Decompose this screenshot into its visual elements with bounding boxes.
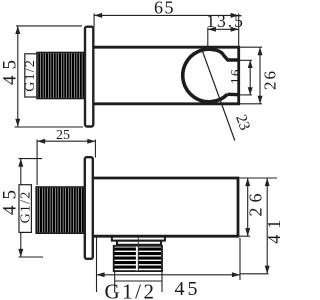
svg-text:13.5: 13.5 — [206, 11, 245, 31]
svg-text:26: 26 — [246, 189, 266, 217]
dimension 45 (top view, left) — [15, 26, 84, 127]
G1/2 label box (bottom view) — [19, 185, 31, 233]
bracket body block (bottom view) — [94, 178, 239, 236]
dimension 65 (top) — [94, 14, 239, 47]
threaded inlet (top view) — [37, 53, 85, 99]
dimension G1/2 (outlet pipe) — [115, 272, 162, 293]
upper lip of cradle — [216, 50, 239, 60]
wall flange (top view) — [85, 27, 93, 127]
svg-text:45: 45 — [0, 54, 21, 85]
dimension 26 (top view, right) — [240, 47, 262, 104]
holder cradle circle (top view) — [183, 49, 228, 102]
svg-text:26: 26 — [261, 69, 280, 90]
threaded outlet pipe (bottom view) — [114, 237, 162, 271]
outlet collar ring 1 — [112, 237, 165, 241]
svg-text:G1/2: G1/2 — [105, 280, 157, 300]
23 degree reference line — [201, 47, 235, 141]
svg-text:G1/2: G1/2 — [18, 191, 33, 224]
svg-text:45: 45 — [175, 278, 201, 300]
dimension 41 (bottom view, far right) — [240, 178, 269, 274]
svg-text:41: 41 — [264, 214, 283, 244]
svg-text:G1/2: G1/2 — [23, 59, 38, 92]
dimension 16 (slot width) — [240, 60, 252, 95]
G1/2 label box (top view) — [25, 54, 37, 97]
outlet collar ring 2 — [117, 241, 161, 245]
svg-text:65: 65 — [154, 0, 175, 18]
wall flange (bottom view) — [85, 157, 93, 259]
dimension 25 (bottom view, top) — [37, 140, 95, 186]
dimension 26 (bottom view, right) — [240, 178, 278, 236]
svg-text:16: 16 — [228, 68, 243, 84]
bracket arm body (top view) — [94, 47, 239, 104]
dimension 13.5 (top) — [208, 28, 239, 51]
threaded inlet (bottom view) — [36, 187, 85, 233]
dimension 45 (bottom view, bottom) — [97, 237, 241, 293]
dimension 45 (bottom view, left) — [19, 159, 44, 257]
svg-text:25: 25 — [56, 128, 70, 143]
lower lip of cradle — [227, 93, 239, 97]
